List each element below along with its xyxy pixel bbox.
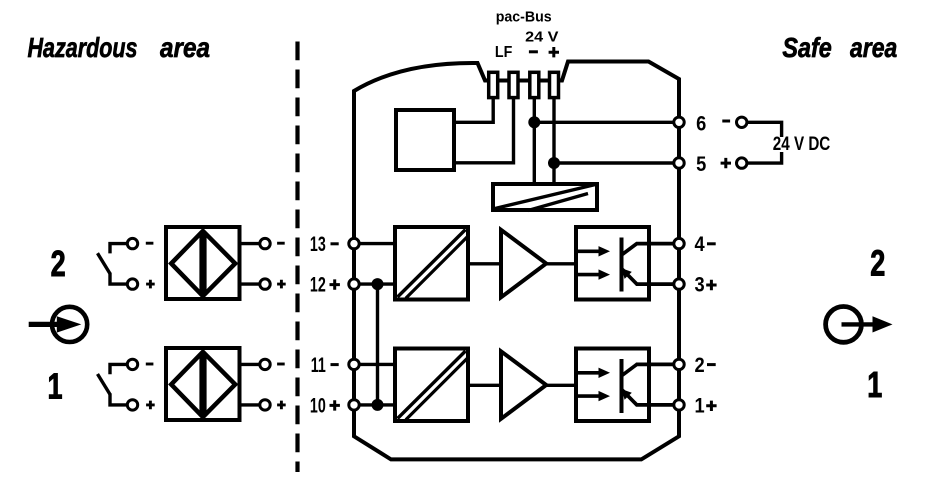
power supply isolation box [493, 184, 597, 211]
svg-text:24 V: 24 V [525, 29, 559, 45]
svg-text:area: area [160, 32, 210, 63]
sensor 2 output circles [260, 238, 270, 289]
svg-text:24 V DC: 24 V DC [773, 134, 831, 155]
svg-text:1: 1 [48, 365, 63, 406]
channel 1 input wires [354, 364, 393, 405]
hazardous/safe boundary dashed line [295, 42, 299, 473]
junction channel 2 plus [372, 278, 384, 290]
input direction symbol [29, 307, 87, 342]
junction on 24V plus line [548, 157, 560, 169]
wire terminal 5 [554, 161, 679, 164]
channel interconnect wire [376, 284, 379, 405]
svg-text:pac-Bus: pac-Bus [496, 9, 552, 25]
terminal 10 circle [349, 400, 359, 410]
switch S2 plus label [146, 280, 155, 289]
wire terminal 6 [534, 121, 679, 124]
svg-text:1: 1 [867, 364, 882, 405]
svg-text:2: 2 [695, 354, 705, 377]
svg-text:6: 6 [696, 112, 706, 135]
switch S2 [98, 244, 130, 285]
switch S2 minus label [146, 242, 154, 245]
svg-text:5: 5 [696, 153, 706, 176]
terminal 3 circle [674, 279, 684, 289]
24V plus label [549, 47, 559, 57]
switch S1 minus label [146, 363, 154, 366]
terminal 4 circle [674, 238, 684, 248]
bus connector pin LF [489, 72, 498, 97]
terminal 6 circle [674, 117, 684, 127]
NAMUR sensor 1 [166, 348, 240, 420]
svg-text:13: 13 [310, 232, 326, 255]
LF logic box [396, 110, 454, 170]
terminal 2 circle [674, 359, 684, 369]
wire amp to opto channel 1 [546, 384, 574, 387]
external supply plus circle [737, 158, 747, 168]
NAMUR sensor 2 [166, 227, 240, 299]
svg-text:area: area [850, 32, 897, 63]
terminal 12 circle [349, 279, 359, 289]
terminal 1 circle [674, 400, 684, 410]
svg-text:2: 2 [51, 243, 66, 284]
main device block outline [354, 62, 679, 460]
wire iso to amp channel 1 [470, 384, 501, 387]
hazardous area label [28, 32, 211, 63]
svg-text:LF: LF [495, 44, 512, 61]
wire amp to opto channel 2 [546, 262, 574, 265]
sensor 2 output plus label [277, 280, 286, 289]
external supply minus label [722, 120, 730, 123]
bus connector pin 24V plus [550, 72, 559, 97]
24V minus label [529, 50, 538, 53]
bus pin wires [456, 99, 554, 182]
isolation barrier channel 1 [395, 349, 468, 422]
optocoupler output channel 2 [576, 227, 679, 300]
sensor 1 output plus label [277, 401, 286, 410]
terminal 13 circle [349, 238, 359, 248]
terminal 5 circle [674, 158, 684, 168]
svg-text:10: 10 [310, 394, 326, 417]
optocoupler output channel 1 [576, 349, 679, 422]
junction channel 1 plus [372, 399, 384, 411]
sensor 1 output minus label [277, 363, 285, 366]
safe area label [782, 32, 897, 63]
switch S1 terminal circles [127, 359, 137, 410]
switch S1 [98, 364, 130, 405]
sensor 2 output wires [242, 244, 262, 285]
sensor 1 output wires [242, 364, 262, 405]
svg-text:2: 2 [870, 243, 885, 284]
switch S1 plus label [146, 401, 155, 410]
terminal 11 circle [349, 359, 359, 369]
wire iso to amp channel 2 [470, 262, 501, 265]
output direction symbol [826, 307, 893, 343]
svg-text:3: 3 [695, 273, 705, 296]
amplifier channel 2 [501, 230, 546, 297]
svg-text:Safe: Safe [782, 32, 831, 63]
external supply plus label [721, 158, 731, 168]
svg-text:11: 11 [311, 353, 326, 376]
sensor 1 output circles [260, 359, 270, 410]
svg-text:Hazardous: Hazardous [28, 32, 138, 63]
bus connector pin 2 [509, 72, 518, 97]
svg-text:1: 1 [695, 394, 705, 417]
isolation barrier channel 2 [395, 227, 468, 300]
switch S2 terminal circles [127, 238, 137, 289]
channel 2 input wires [354, 244, 393, 285]
svg-text:4: 4 [695, 233, 705, 256]
external supply minus circle [737, 117, 747, 127]
external supply lower wire [747, 152, 782, 163]
junction on 24V minus line [528, 116, 540, 128]
external supply upper wire [747, 122, 782, 137]
svg-text:12: 12 [310, 273, 326, 296]
sensor 2 output minus label [277, 242, 285, 245]
amplifier channel 1 [501, 351, 546, 419]
bus connector pin 24V minus [530, 72, 539, 97]
